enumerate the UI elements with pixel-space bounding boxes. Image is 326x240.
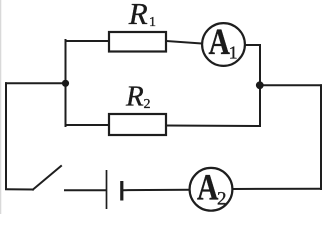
switch S1 blade	[33, 166, 61, 190]
wire battery-to-A2 segment	[123, 189, 190, 192]
svg-text:R: R	[128, 0, 148, 31]
wire top branch left segment	[66, 40, 110, 42]
svg-text:1: 1	[229, 42, 238, 62]
resistor R2	[109, 114, 166, 135]
wire switch-to-battery segment	[65, 189, 105, 191]
svg-text:R: R	[125, 80, 144, 112]
wire bottom left segment	[6, 188, 33, 190]
label R1	[128, 0, 156, 31]
svg-text:A: A	[197, 167, 218, 208]
svg-text:2: 2	[144, 97, 151, 112]
ammeter A1	[202, 22, 245, 66]
wire middle branch right segment	[166, 85, 260, 126]
svg-text:2: 2	[217, 189, 227, 210]
svg-text:1: 1	[149, 15, 156, 30]
wire A2-to-right segment	[232, 188, 321, 190]
wire left outer vertical	[5, 83, 7, 189]
node right junction	[256, 81, 264, 89]
wire right outer vertical	[320, 85, 322, 189]
wire top branch A1-to-corner segment	[246, 45, 261, 86]
wire middle branch left segment	[66, 124, 110, 126]
svg-text:A: A	[209, 22, 230, 63]
wire top branch R1-to-A1 segment	[166, 41, 203, 44]
ammeter A2	[190, 167, 233, 210]
wire right feed horizontal	[260, 84, 322, 86]
battery B1 short plate	[120, 181, 123, 201]
wire left feed horizontal	[6, 82, 66, 84]
label R2	[125, 80, 151, 112]
resistor R1	[109, 32, 166, 52]
battery B1 long plate	[106, 170, 108, 209]
wire left inner vertical	[65, 40, 67, 126]
node left junction	[62, 80, 69, 87]
